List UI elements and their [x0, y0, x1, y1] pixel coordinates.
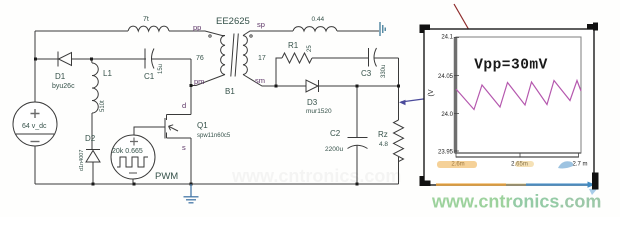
svg-text:25: 25 [307, 45, 313, 52]
svg-text:D1: D1 [55, 72, 66, 81]
svg-text:15u: 15u [158, 64, 164, 74]
svg-text:d1n4007: d1n4007 [79, 150, 85, 171]
svg-text:0.44: 0.44 [312, 16, 325, 23]
svg-text:www.cntronics.com: www.cntronics.com [231, 166, 401, 186]
svg-text:Q1: Q1 [197, 121, 208, 130]
svg-text:510t: 510t [100, 100, 106, 112]
svg-text:7t: 7t [143, 16, 149, 23]
svg-text:24.05: 24.05 [438, 74, 454, 80]
svg-text:2200u: 2200u [325, 146, 343, 153]
svg-text:pm: pm [194, 77, 204, 86]
svg-text:Vpp=30mV: Vpp=30mV [474, 58, 548, 74]
svg-text:64 v_dc: 64 v_dc [22, 123, 47, 130]
svg-text:76: 76 [196, 55, 204, 62]
svg-text:PWM: PWM [155, 171, 178, 182]
svg-text:23.95: 23.95 [438, 150, 454, 156]
svg-text:24.0: 24.0 [441, 112, 453, 118]
svg-text:R1: R1 [288, 41, 299, 50]
svg-text:(V: (V [428, 89, 435, 96]
svg-text:C3: C3 [361, 69, 372, 78]
svg-text:www.cntronics.com: www.cntronics.com [431, 192, 601, 212]
svg-text:24.1: 24.1 [441, 35, 453, 41]
svg-text:sm: sm [255, 76, 265, 85]
svg-text:Rz: Rz [378, 130, 388, 139]
svg-text:330u: 330u [381, 65, 387, 78]
svg-text:17: 17 [258, 55, 266, 62]
svg-text:20k 0.665: 20k 0.665 [112, 148, 143, 155]
svg-text:2.7 m: 2.7 m [572, 162, 587, 168]
svg-text:byu26c: byu26c [52, 83, 75, 90]
svg-text:D3: D3 [307, 98, 318, 107]
svg-text:4.8: 4.8 [379, 141, 388, 148]
svg-text:spw11n60c5: spw11n60c5 [197, 133, 231, 139]
svg-text:sp: sp [257, 20, 265, 29]
svg-text:s: s [182, 143, 186, 152]
svg-text:d: d [182, 101, 186, 110]
svg-text:C2: C2 [330, 129, 341, 138]
svg-text:C1: C1 [144, 72, 155, 81]
svg-text:EE2625: EE2625 [216, 16, 250, 27]
svg-text:B1: B1 [225, 87, 235, 96]
svg-text:D2: D2 [85, 134, 96, 143]
svg-text:mur1520: mur1520 [306, 108, 332, 115]
svg-text:L1: L1 [103, 69, 112, 78]
svg-text:pp: pp [193, 23, 201, 32]
